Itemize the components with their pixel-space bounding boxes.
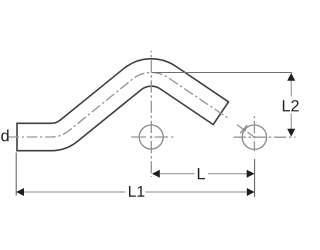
extension line left (under pipe end) — [15, 153, 17, 196]
pipe left end face — [16, 123, 18, 152]
pipe axis centerline (dash-dot) — [9, 72, 229, 137]
d label — [1, 129, 8, 141]
dimension L1 line — [23, 191, 248, 193]
circle 1 (left outlet cross-section) — [139, 125, 163, 149]
circle 2 vertical centerline — [253, 116, 255, 151]
L1 left arrow — [16, 188, 24, 196]
L2 down arrow — [287, 129, 295, 137]
extension line right (under circle 2) — [254, 159, 256, 197]
circle 1 horizontal centerline — [131, 136, 173, 138]
L1 label — [129, 186, 144, 197]
vertical centerline through apex and circle 1 — [150, 51, 152, 177]
pipe crossover bend outline (outer dark stroke) — [17, 72, 222, 137]
cross tick on diagonal — [240, 125, 247, 133]
diagonal centerline into circle 2 — [237, 125, 255, 138]
L label — [198, 168, 205, 179]
pipe right end face — [213, 102, 229, 125]
dimension L2 line — [290, 80, 292, 130]
L2 up arrow — [287, 73, 295, 81]
L2 label — [283, 100, 299, 111]
circle 2 (right outlet cross-section) — [242, 125, 266, 149]
circle 2 horizontal centerline — [234, 136, 296, 138]
L2 reference line (horizontal from apex) — [151, 72, 292, 74]
L left arrow — [152, 170, 160, 178]
L right arrow — [247, 170, 255, 178]
pipe interior white fill — [17, 72, 222, 137]
L1 right arrow — [247, 188, 255, 196]
dimension L line — [159, 173, 248, 175]
